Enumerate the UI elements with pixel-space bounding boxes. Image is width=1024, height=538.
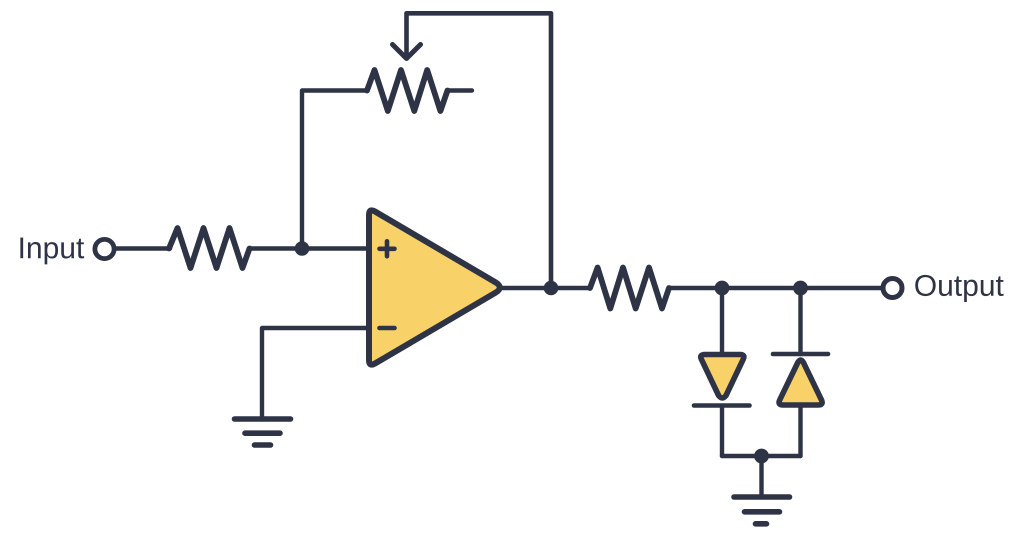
wire ground stem right xyxy=(759,456,763,496)
node output junction dot xyxy=(544,281,559,296)
op-amp plus sign xyxy=(380,241,395,256)
label Input xyxy=(20,238,84,265)
wire node B down to diode D1 xyxy=(720,288,724,353)
diode D1 cathode bar xyxy=(694,403,750,408)
node A junction dot xyxy=(295,241,310,256)
ground right xyxy=(734,497,790,524)
node D junction dot (diode common) xyxy=(754,449,769,464)
wire op-amp output to R3 xyxy=(500,286,590,290)
wire node A up to potentiometer left lead xyxy=(302,91,367,249)
wire inverting input to ground stem xyxy=(262,328,368,418)
wire R3 to output terminal xyxy=(669,286,881,290)
wire potentiometer right lead (open end) xyxy=(447,88,472,92)
diode D1 xyxy=(701,355,744,398)
wire node C down to diode D2 xyxy=(798,288,802,354)
ground left xyxy=(235,419,291,445)
wire feedback: output node up and over to wiper arrow xyxy=(407,13,552,288)
node C junction dot xyxy=(793,281,808,296)
diode D2 bar xyxy=(773,352,828,357)
label Output xyxy=(915,275,1003,302)
input terminal xyxy=(95,239,114,258)
potentiometer R2 body xyxy=(367,70,448,111)
op-amp U1 xyxy=(369,210,500,364)
wire bottom rail joining diodes xyxy=(722,454,801,458)
resistor R1 xyxy=(169,228,250,268)
wire input terminal to R1 xyxy=(116,246,170,250)
wire diode D2 anode down xyxy=(798,405,802,456)
resistor R3 xyxy=(590,268,669,309)
wire R1 to op-amp non-inverting input xyxy=(249,246,367,250)
op-amp minus sign xyxy=(380,326,395,331)
potentiometer R2 wiper arrowhead xyxy=(393,45,421,59)
diode D2 xyxy=(779,360,822,405)
output terminal xyxy=(883,279,902,298)
wire diode D1 cathode down xyxy=(720,407,724,456)
node B junction dot xyxy=(715,281,730,296)
